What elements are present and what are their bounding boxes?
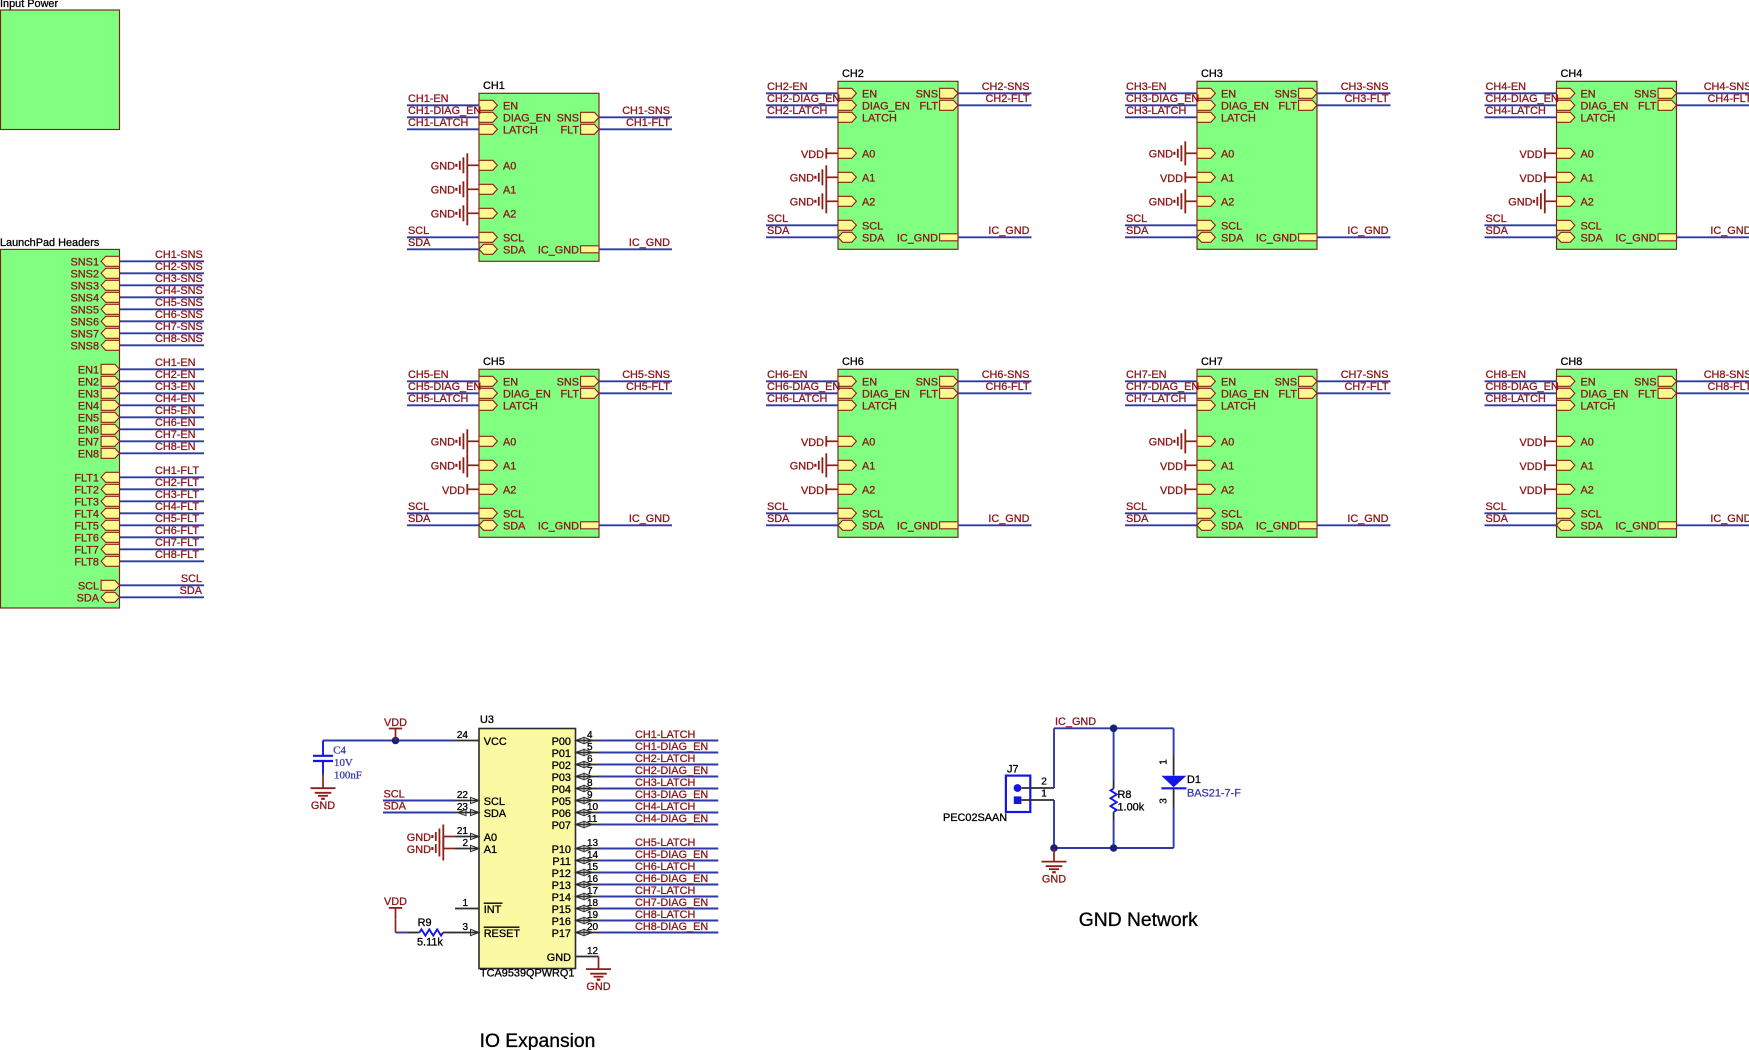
svg-text:CH1-DIAG_EN: CH1-DIAG_EN: [408, 105, 481, 117]
svg-text:SNS: SNS: [1275, 89, 1297, 101]
svg-text:VDD: VDD: [384, 896, 407, 908]
svg-text:SDA: SDA: [1221, 521, 1244, 533]
svg-text:GND: GND: [407, 832, 431, 844]
svg-text:IC_GND: IC_GND: [1615, 233, 1656, 245]
svg-text:VCC: VCC: [484, 736, 507, 748]
svg-text:CH5-DIAG_EN: CH5-DIAG_EN: [408, 381, 481, 393]
svg-text:P11: P11: [552, 856, 571, 868]
svg-text:FLT: FLT: [919, 101, 938, 113]
svg-text:CH4-LATCH: CH4-LATCH: [1486, 105, 1546, 117]
svg-text:SNS8: SNS8: [71, 341, 99, 353]
svg-text:A0: A0: [503, 437, 516, 449]
svg-text:EN3: EN3: [78, 389, 99, 401]
svg-text:CH3-DIAG_EN: CH3-DIAG_EN: [635, 789, 708, 801]
svg-text:R9: R9: [418, 917, 432, 929]
svg-text:SDA: SDA: [862, 521, 885, 533]
svg-text:VDD: VDD: [1520, 461, 1543, 473]
svg-text:D1: D1: [1187, 774, 1201, 786]
svg-text:A0: A0: [1221, 437, 1234, 449]
svg-text:A1: A1: [862, 173, 875, 185]
svg-text:A0: A0: [862, 437, 875, 449]
svg-text:SNS7: SNS7: [71, 329, 99, 341]
svg-text:IC_GND: IC_GND: [1055, 716, 1096, 728]
svg-text:CH8-DIAG_EN: CH8-DIAG_EN: [1486, 381, 1559, 393]
svg-text:RESET: RESET: [484, 928, 521, 940]
svg-text:SDA: SDA: [1126, 225, 1149, 237]
svg-text:CH6-DIAG_EN: CH6-DIAG_EN: [767, 381, 840, 393]
svg-text:SNS: SNS: [1275, 377, 1297, 389]
svg-text:FLT: FLT: [1278, 101, 1297, 113]
svg-text:CH2-FLT: CH2-FLT: [155, 477, 199, 489]
svg-text:P12: P12: [552, 868, 571, 880]
svg-text:CH2-EN: CH2-EN: [767, 81, 808, 93]
svg-text:CH6-FLT: CH6-FLT: [986, 381, 1030, 393]
svg-text:CH7-SNS: CH7-SNS: [155, 321, 203, 333]
svg-text:CH6-DIAG_EN: CH6-DIAG_EN: [635, 873, 708, 885]
svg-text:A0: A0: [484, 832, 497, 844]
svg-text:EN2: EN2: [78, 377, 99, 389]
svg-text:CH8-LATCH: CH8-LATCH: [635, 909, 695, 921]
svg-text:CH1-FLT: CH1-FLT: [155, 465, 199, 477]
svg-text:CH2: CH2: [842, 68, 864, 80]
svg-text:LaunchPad Headers: LaunchPad Headers: [0, 237, 100, 249]
svg-text:A2: A2: [1581, 197, 1594, 209]
svg-text:IC_GND: IC_GND: [1710, 513, 1749, 525]
svg-text:CH7-DIAG_EN: CH7-DIAG_EN: [1126, 381, 1199, 393]
svg-text:CH2-LATCH: CH2-LATCH: [767, 105, 827, 117]
svg-text:FLT: FLT: [560, 125, 579, 137]
svg-text:EN1: EN1: [78, 365, 99, 377]
svg-text:A2: A2: [862, 197, 875, 209]
svg-text:P10: P10: [552, 844, 571, 856]
svg-text:SCL: SCL: [503, 233, 524, 245]
svg-text:FLT: FLT: [1278, 389, 1297, 401]
svg-text:CH4-DIAG_EN: CH4-DIAG_EN: [1486, 93, 1559, 105]
svg-text:SCL: SCL: [78, 581, 99, 593]
svg-text:SDA: SDA: [1221, 233, 1244, 245]
svg-text:CH6-FLT: CH6-FLT: [155, 525, 199, 537]
svg-text:DIAG_EN: DIAG_EN: [503, 113, 551, 125]
svg-text:P16: P16: [552, 916, 571, 928]
svg-text:P05: P05: [552, 796, 571, 808]
svg-text:FLT1: FLT1: [74, 473, 99, 485]
svg-text:CH4-SNS: CH4-SNS: [1704, 81, 1749, 93]
svg-text:GND Network: GND Network: [1079, 910, 1198, 931]
svg-text:CH2-EN: CH2-EN: [155, 369, 196, 381]
svg-text:SDA: SDA: [862, 233, 885, 245]
svg-text:CH3-LATCH: CH3-LATCH: [635, 777, 695, 789]
svg-text:CH8-FLT: CH8-FLT: [155, 549, 199, 561]
svg-text:CH2-LATCH: CH2-LATCH: [635, 753, 695, 765]
svg-text:CH8-SNS: CH8-SNS: [1704, 369, 1749, 381]
svg-text:SDA: SDA: [77, 593, 100, 605]
svg-text:CH4-LATCH: CH4-LATCH: [635, 801, 695, 813]
svg-text:VDD: VDD: [801, 437, 824, 449]
svg-text:LATCH: LATCH: [1581, 401, 1616, 413]
svg-text:CH1-LATCH: CH1-LATCH: [635, 729, 695, 741]
svg-text:CH1-SNS: CH1-SNS: [155, 249, 203, 261]
svg-text:CH6-LATCH: CH6-LATCH: [767, 393, 827, 405]
svg-text:CH7-FLT: CH7-FLT: [1345, 381, 1389, 393]
svg-text:SCL: SCL: [1581, 221, 1602, 233]
svg-text:SCL: SCL: [1126, 213, 1147, 225]
svg-text:P07: P07: [552, 820, 571, 832]
svg-text:VDD: VDD: [1520, 149, 1543, 161]
svg-text:CH3-LATCH: CH3-LATCH: [1126, 105, 1186, 117]
svg-text:2: 2: [1041, 777, 1047, 788]
svg-text:SDA: SDA: [503, 245, 526, 257]
svg-text:GND: GND: [1149, 437, 1173, 449]
svg-text:VDD: VDD: [1520, 485, 1543, 497]
svg-text:CH3-SNS: CH3-SNS: [155, 273, 203, 285]
svg-text:A2: A2: [503, 209, 516, 221]
svg-text:SDA: SDA: [408, 237, 431, 249]
svg-text:SDA: SDA: [503, 521, 526, 533]
svg-text:IC_GND: IC_GND: [1347, 225, 1388, 237]
svg-text:SCL: SCL: [1221, 509, 1242, 521]
svg-text:P00: P00: [552, 736, 571, 748]
svg-text:CH5-LATCH: CH5-LATCH: [408, 393, 468, 405]
svg-text:1.00k: 1.00k: [1118, 801, 1145, 813]
svg-text:EN: EN: [1581, 89, 1596, 101]
svg-text:CH1-FLT: CH1-FLT: [626, 117, 670, 129]
svg-text:A2: A2: [1221, 197, 1234, 209]
svg-text:CH6-SNS: CH6-SNS: [982, 369, 1030, 381]
svg-text:SCL: SCL: [862, 509, 883, 521]
svg-text:A1: A1: [1221, 173, 1234, 185]
svg-text:A0: A0: [1581, 437, 1594, 449]
svg-text:100nF: 100nF: [334, 769, 362, 781]
svg-text:EN7: EN7: [78, 437, 99, 449]
svg-text:CH5-EN: CH5-EN: [155, 405, 196, 417]
svg-text:CH8-EN: CH8-EN: [1486, 369, 1527, 381]
svg-text:CH1-EN: CH1-EN: [155, 357, 196, 369]
svg-text:GND: GND: [547, 952, 571, 964]
svg-text:CH5-EN: CH5-EN: [408, 369, 449, 381]
svg-text:VDD: VDD: [384, 717, 407, 729]
svg-text:CH3-DIAG_EN: CH3-DIAG_EN: [1126, 93, 1199, 105]
svg-text:CH8-LATCH: CH8-LATCH: [1486, 393, 1546, 405]
svg-text:12: 12: [587, 946, 599, 957]
svg-text:VDD: VDD: [442, 485, 465, 497]
svg-text:2: 2: [462, 838, 468, 849]
svg-text:DIAG_EN: DIAG_EN: [862, 389, 910, 401]
svg-text:CH8: CH8: [1561, 356, 1583, 368]
svg-text:A0: A0: [1581, 149, 1594, 161]
svg-text:EN: EN: [862, 89, 877, 101]
svg-text:SDA: SDA: [1581, 521, 1604, 533]
svg-text:BAS21-7-F: BAS21-7-F: [1187, 788, 1241, 800]
svg-text:FLT: FLT: [919, 389, 938, 401]
svg-text:IC_GND: IC_GND: [897, 521, 938, 533]
svg-text:CH3-SNS: CH3-SNS: [1341, 81, 1389, 93]
svg-text:SDA: SDA: [1126, 513, 1149, 525]
svg-text:CH8-DIAG_EN: CH8-DIAG_EN: [635, 921, 708, 933]
svg-text:FLT: FLT: [1638, 101, 1657, 113]
svg-text:CH2-DIAG_EN: CH2-DIAG_EN: [767, 93, 840, 105]
svg-text:CH1-SNS: CH1-SNS: [622, 105, 670, 117]
svg-text:VDD: VDD: [1160, 173, 1183, 185]
svg-text:Input Power: Input Power: [0, 0, 58, 10]
svg-text:SNS: SNS: [916, 377, 938, 389]
svg-text:CH7-LATCH: CH7-LATCH: [1126, 393, 1186, 405]
svg-text:IC_GND: IC_GND: [1347, 513, 1388, 525]
svg-text:SDA: SDA: [1581, 233, 1604, 245]
svg-text:P13: P13: [552, 880, 571, 892]
svg-text:CH7-EN: CH7-EN: [155, 429, 196, 441]
svg-text:SNS6: SNS6: [71, 317, 99, 329]
svg-text:CH4-FLT: CH4-FLT: [1708, 93, 1749, 105]
svg-text:EN8: EN8: [78, 449, 99, 461]
svg-text:SNS: SNS: [1634, 89, 1656, 101]
svg-text:CH4-SNS: CH4-SNS: [155, 285, 203, 297]
svg-text:EN6: EN6: [78, 425, 99, 437]
svg-text:A0: A0: [862, 149, 875, 161]
svg-text:22: 22: [457, 790, 469, 801]
svg-text:P04: P04: [552, 784, 571, 796]
svg-text:TCA9539QPWRQ1: TCA9539QPWRQ1: [480, 968, 574, 980]
svg-text:U3: U3: [480, 714, 494, 726]
svg-text:A1: A1: [1581, 461, 1594, 473]
svg-text:CH2-SNS: CH2-SNS: [155, 261, 203, 273]
svg-text:IC_GND: IC_GND: [629, 237, 670, 249]
svg-text:EN: EN: [1221, 89, 1236, 101]
svg-text:A2: A2: [1221, 485, 1234, 497]
svg-text:GND: GND: [1149, 197, 1173, 209]
svg-text:LATCH: LATCH: [862, 113, 897, 125]
svg-text:CH2-DIAG_EN: CH2-DIAG_EN: [635, 765, 708, 777]
svg-text:SCL: SCL: [1126, 501, 1147, 513]
svg-text:SDA: SDA: [484, 808, 507, 820]
svg-text:CH5-FLT: CH5-FLT: [155, 513, 199, 525]
svg-text:CH7-DIAG_EN: CH7-DIAG_EN: [635, 897, 708, 909]
svg-text:P06: P06: [552, 808, 571, 820]
svg-text:IC_GND: IC_GND: [988, 513, 1029, 525]
svg-text:IC_GND: IC_GND: [1256, 521, 1297, 533]
svg-text:A1: A1: [484, 844, 497, 856]
svg-text:SDA: SDA: [1486, 513, 1509, 525]
svg-text:SNS: SNS: [557, 113, 579, 125]
svg-text:GND: GND: [790, 197, 814, 209]
svg-text:FLT2: FLT2: [74, 485, 99, 497]
svg-text:CH6-SNS: CH6-SNS: [155, 309, 203, 321]
svg-text:SCL: SCL: [862, 221, 883, 233]
svg-text:SCL: SCL: [408, 501, 429, 513]
svg-text:SNS1: SNS1: [71, 257, 99, 269]
svg-text:1: 1: [1159, 759, 1170, 765]
svg-text:SCL: SCL: [384, 788, 405, 800]
svg-text:FLT: FLT: [1638, 389, 1657, 401]
svg-text:SNS: SNS: [916, 89, 938, 101]
svg-text:CH8-FLT: CH8-FLT: [1708, 381, 1749, 393]
svg-text:GND: GND: [431, 461, 455, 473]
svg-text:SCL: SCL: [484, 796, 505, 808]
svg-text:SCL: SCL: [408, 225, 429, 237]
svg-text:IC_GND: IC_GND: [1710, 225, 1749, 237]
svg-text:DIAG_EN: DIAG_EN: [1221, 101, 1269, 113]
svg-text:SDA: SDA: [384, 800, 407, 812]
svg-text:P01: P01: [552, 748, 571, 760]
svg-text:A0: A0: [1221, 149, 1234, 161]
svg-text:SCL: SCL: [1486, 213, 1507, 225]
svg-text:P02: P02: [552, 760, 571, 772]
svg-text:CH7-SNS: CH7-SNS: [1341, 369, 1389, 381]
svg-text:EN: EN: [1221, 377, 1236, 389]
svg-text:CH5-FLT: CH5-FLT: [626, 381, 670, 393]
svg-text:SCL: SCL: [1581, 509, 1602, 521]
svg-text:SNS: SNS: [1634, 377, 1656, 389]
svg-text:R8: R8: [1118, 789, 1132, 801]
svg-text:VDD: VDD: [1520, 173, 1543, 185]
svg-text:INT: INT: [484, 904, 502, 916]
svg-text:A1: A1: [862, 461, 875, 473]
svg-text:A1: A1: [503, 461, 516, 473]
svg-text:DIAG_EN: DIAG_EN: [862, 101, 910, 113]
svg-text:CH8-SNS: CH8-SNS: [155, 333, 203, 345]
svg-text:CH1-LATCH: CH1-LATCH: [408, 117, 468, 129]
svg-text:CH3-FLT: CH3-FLT: [155, 489, 199, 501]
svg-text:3: 3: [1159, 798, 1170, 804]
svg-text:SCL: SCL: [1486, 501, 1507, 513]
svg-text:VDD: VDD: [801, 485, 824, 497]
svg-text:P03: P03: [552, 772, 571, 784]
svg-text:FLT5: FLT5: [74, 521, 99, 533]
svg-text:LATCH: LATCH: [503, 401, 538, 413]
svg-text:CH7-LATCH: CH7-LATCH: [635, 885, 695, 897]
svg-text:EN: EN: [862, 377, 877, 389]
svg-text:GND: GND: [431, 161, 455, 173]
svg-text:P14: P14: [552, 892, 571, 904]
svg-text:SDA: SDA: [408, 513, 431, 525]
svg-text:GND: GND: [1508, 197, 1532, 209]
svg-text:GND: GND: [1042, 874, 1066, 886]
svg-text:SDA: SDA: [1486, 225, 1509, 237]
svg-text:10V: 10V: [334, 757, 353, 769]
svg-text:24: 24: [457, 730, 469, 741]
svg-text:LATCH: LATCH: [1221, 401, 1256, 413]
svg-text:LATCH: LATCH: [1221, 113, 1256, 125]
svg-text:EN: EN: [1581, 377, 1596, 389]
svg-text:CH5-DIAG_EN: CH5-DIAG_EN: [635, 849, 708, 861]
svg-text:EN5: EN5: [78, 413, 99, 425]
svg-text:DIAG_EN: DIAG_EN: [1581, 101, 1629, 113]
svg-text:DIAG_EN: DIAG_EN: [1581, 389, 1629, 401]
svg-text:CH4-EN: CH4-EN: [1486, 81, 1527, 93]
svg-text:3: 3: [462, 922, 468, 933]
svg-text:LATCH: LATCH: [503, 125, 538, 137]
svg-text:CH4: CH4: [1561, 68, 1583, 80]
svg-text:SNS5: SNS5: [71, 305, 99, 317]
svg-text:23: 23: [457, 802, 469, 813]
svg-text:CH3-EN: CH3-EN: [155, 381, 196, 393]
svg-text:FLT6: FLT6: [74, 533, 99, 545]
svg-text:EN: EN: [503, 101, 518, 113]
svg-text:A2: A2: [503, 485, 516, 497]
svg-text:IC_GND: IC_GND: [897, 233, 938, 245]
svg-text:SNS: SNS: [557, 377, 579, 389]
svg-text:J7: J7: [1007, 764, 1019, 776]
svg-text:CH6-LATCH: CH6-LATCH: [635, 861, 695, 873]
svg-text:IC_GND: IC_GND: [629, 513, 670, 525]
svg-text:CH5-SNS: CH5-SNS: [155, 297, 203, 309]
svg-text:GND: GND: [431, 209, 455, 221]
svg-text:IC_GND: IC_GND: [538, 245, 579, 257]
svg-text:SNS4: SNS4: [71, 293, 99, 305]
svg-text:CH6: CH6: [842, 356, 864, 368]
svg-text:GND: GND: [1149, 149, 1173, 161]
svg-text:DIAG_EN: DIAG_EN: [1221, 389, 1269, 401]
svg-text:CH2-SNS: CH2-SNS: [982, 81, 1030, 93]
svg-text:LATCH: LATCH: [1581, 113, 1616, 125]
svg-text:PEC02SAAN: PEC02SAAN: [943, 812, 1007, 824]
svg-text:FLT4: FLT4: [74, 509, 99, 521]
svg-text:SCL: SCL: [503, 509, 524, 521]
svg-text:VDD: VDD: [1160, 485, 1183, 497]
svg-text:CH5: CH5: [483, 356, 505, 368]
svg-text:SCL: SCL: [767, 213, 788, 225]
svg-text:GND: GND: [431, 437, 455, 449]
svg-text:A2: A2: [1581, 485, 1594, 497]
svg-text:CH7: CH7: [1201, 356, 1223, 368]
svg-text:A1: A1: [1581, 173, 1594, 185]
svg-text:21: 21: [457, 826, 469, 837]
svg-text:GND: GND: [431, 185, 455, 197]
svg-text:GND: GND: [407, 844, 431, 856]
svg-text:CH7-FLT: CH7-FLT: [155, 537, 199, 549]
svg-text:CH1-EN: CH1-EN: [408, 93, 449, 105]
svg-text:CH8-EN: CH8-EN: [155, 441, 196, 453]
svg-text:CH5-LATCH: CH5-LATCH: [635, 837, 695, 849]
svg-text:GND: GND: [311, 800, 335, 812]
svg-text:IC_GND: IC_GND: [1615, 521, 1656, 533]
svg-text:SCL: SCL: [181, 573, 202, 585]
svg-text:A2: A2: [862, 485, 875, 497]
svg-text:SNS3: SNS3: [71, 281, 99, 293]
svg-text:CH1-DIAG_EN: CH1-DIAG_EN: [635, 741, 708, 753]
svg-text:IC_GND: IC_GND: [988, 225, 1029, 237]
svg-text:IC_GND: IC_GND: [1256, 233, 1297, 245]
svg-text:A0: A0: [503, 161, 516, 173]
svg-text:CH4-EN: CH4-EN: [155, 393, 196, 405]
svg-text:CH6-EN: CH6-EN: [767, 369, 808, 381]
svg-text:GND: GND: [790, 173, 814, 185]
svg-text:CH3-FLT: CH3-FLT: [1345, 93, 1389, 105]
svg-text:IO Expansion: IO Expansion: [480, 1031, 596, 1050]
svg-text:FLT7: FLT7: [74, 545, 99, 557]
svg-text:SDA: SDA: [180, 585, 203, 597]
svg-text:EN: EN: [503, 377, 518, 389]
svg-text:P15: P15: [552, 904, 571, 916]
svg-text:SCL: SCL: [767, 501, 788, 513]
svg-text:FLT8: FLT8: [74, 557, 99, 569]
svg-text:CH4-DIAG_EN: CH4-DIAG_EN: [635, 813, 708, 825]
svg-text:CH7-EN: CH7-EN: [1126, 369, 1167, 381]
svg-text:LATCH: LATCH: [862, 401, 897, 413]
svg-text:CH6-EN: CH6-EN: [155, 417, 196, 429]
svg-text:SDA: SDA: [767, 225, 790, 237]
svg-text:VDD: VDD: [1160, 461, 1183, 473]
svg-text:CH4-FLT: CH4-FLT: [155, 501, 199, 513]
svg-text:CH1: CH1: [483, 80, 505, 92]
svg-text:GND: GND: [586, 981, 610, 993]
svg-text:SCL: SCL: [1221, 221, 1242, 233]
svg-text:CH3-EN: CH3-EN: [1126, 81, 1167, 93]
svg-text:C4: C4: [333, 745, 346, 757]
svg-text:5.11k: 5.11k: [417, 936, 443, 948]
svg-text:EN4: EN4: [78, 401, 99, 413]
svg-text:SNS2: SNS2: [71, 269, 99, 281]
svg-text:CH2-FLT: CH2-FLT: [986, 93, 1030, 105]
